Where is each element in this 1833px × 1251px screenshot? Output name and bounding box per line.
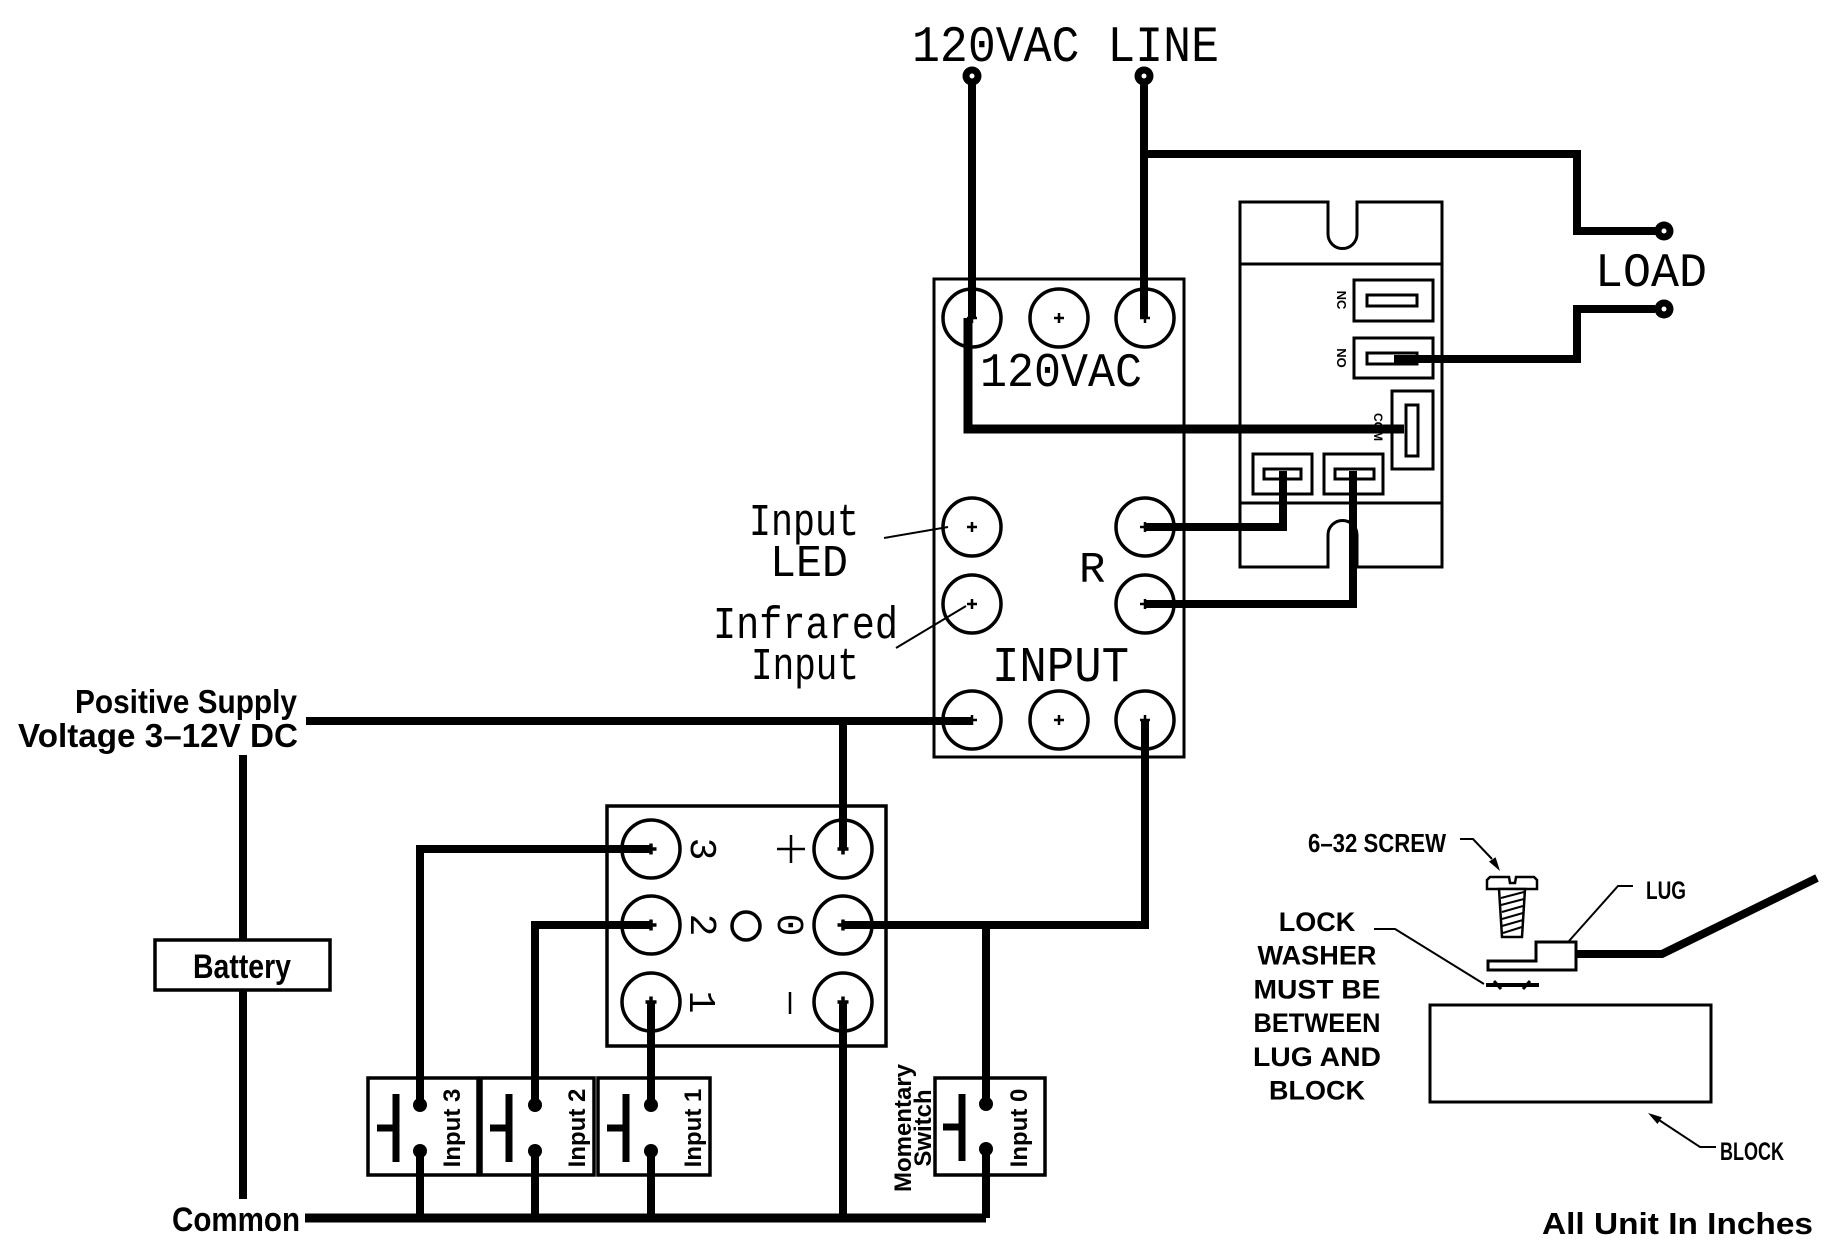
U1 terminal R1 <box>1116 498 1174 556</box>
switch SW3 box <box>368 1078 478 1175</box>
leader BLOCK <box>1648 1113 1716 1147</box>
leader lock washer <box>1374 929 1484 984</box>
svg-text:Common: Common <box>172 1201 300 1239</box>
leader 6-32 screw <box>1460 839 1500 871</box>
U1 terminal AC2 <box>1030 289 1088 347</box>
switch SW2 symbol <box>490 1094 509 1162</box>
TB1 center hole <box>732 912 760 940</box>
label LOCK WASHER MUST BE BETWEEN LUG AND BLOCK <box>1253 907 1381 1106</box>
U1 terminal IN3 <box>1116 691 1174 749</box>
svg-text:NC: NC <box>1334 291 1349 310</box>
LOAD terminal top <box>1655 222 1674 241</box>
screw shaft with threads <box>1499 889 1525 937</box>
U1 terminal cross marks <box>967 313 1150 725</box>
wire SW0 to common <box>982 1149 990 1218</box>
switch SW0 symbol <box>943 1094 962 1161</box>
wire TB1-2 to switch Input2 <box>535 925 651 1105</box>
svg-text:LUG AND: LUG AND <box>1253 1042 1381 1072</box>
TB1 terminal cross marks <box>646 844 849 1008</box>
wire positive supply <box>306 717 972 725</box>
TB1 terminal 3 <box>622 820 680 878</box>
svg-text:LOCK: LOCK <box>1279 907 1356 937</box>
LOAD terminal bottom <box>1655 300 1674 319</box>
svg-text:6–32 SCREW: 6–32 SCREW <box>1308 828 1446 858</box>
battery BT1 box <box>155 940 330 990</box>
wire NO to LOAD bottom <box>1394 309 1655 359</box>
U1 terminal IR <box>943 575 1001 633</box>
relay terminal COM slot <box>1392 391 1433 469</box>
label Input LED <box>749 498 859 590</box>
svg-text:Input 3: Input 3 <box>439 1089 466 1168</box>
svg-text:LOAD: LOAD <box>1595 247 1707 301</box>
block <box>1430 1005 1711 1102</box>
svg-text:120VAC: 120VAC <box>980 347 1142 401</box>
U1 terminal IN2 <box>1030 691 1088 749</box>
wire U1 R1 to relay coil A <box>1145 471 1283 527</box>
U1 terminal AC1 <box>943 289 1001 347</box>
svg-text:R: R <box>1079 546 1105 596</box>
svg-text:BETWEEN: BETWEEN <box>1254 1008 1381 1038</box>
lock washer <box>1486 981 1539 989</box>
wire SW1 to common <box>647 1151 655 1218</box>
wire 120VAC line left drop <box>968 84 976 318</box>
svg-text:All Unit In Inches: All Unit In Inches <box>1542 1206 1813 1241</box>
wire supply to plus terminal <box>839 721 847 849</box>
svg-text:NO: NO <box>1334 348 1349 368</box>
wire common bus <box>305 1214 986 1223</box>
terminal line-right <box>1135 67 1154 86</box>
wire U1 R2 to relay coil B <box>1145 471 1353 604</box>
switch SW1 box <box>598 1078 710 1175</box>
TB1 terminal 0 <box>814 896 872 954</box>
switch SW2 box <box>481 1078 594 1175</box>
leader Infrared Input <box>896 606 966 648</box>
TB1 pin label plus <box>777 835 805 863</box>
wire TB1-1 to switch Input1 <box>647 1002 655 1105</box>
relay K1 outline <box>1240 202 1442 567</box>
U1 terminal LED <box>943 498 1001 556</box>
svg-text:BLOCK: BLOCK <box>1720 1138 1784 1166</box>
svg-text:3: 3 <box>679 838 722 861</box>
lug <box>1488 942 1576 970</box>
screw head <box>1487 877 1537 889</box>
svg-text:Input 2: Input 2 <box>564 1089 591 1168</box>
wire U1 AC1 to relay COM <box>968 318 1404 429</box>
main module U1 box <box>934 279 1184 757</box>
relay terminal NO slot <box>1354 338 1433 378</box>
TB1 terminal minus <box>814 973 872 1031</box>
svg-text:2: 2 <box>679 914 722 937</box>
svg-text:INPUT: INPUT <box>992 640 1129 697</box>
leader Input LED <box>884 527 948 538</box>
switch SW0 contacts <box>979 1097 993 1156</box>
wire TB1-3 to switch Input3 <box>420 849 651 1105</box>
switch SW3 symbol <box>377 1094 396 1162</box>
U1 terminal R2 <box>1116 575 1174 633</box>
svg-text:MUST BE: MUST BE <box>1254 974 1381 1004</box>
switch SW3 contacts <box>413 1098 427 1158</box>
label Infrared Input <box>713 601 898 693</box>
switch SW0 label Momentary Switch <box>890 1063 937 1192</box>
leader LUG <box>1569 886 1633 941</box>
wire momentary switch drop <box>982 925 990 1104</box>
relay terminal NC slot <box>1354 280 1433 321</box>
terminal block TB1 box <box>607 806 886 1046</box>
relay coil terminal A slot <box>1253 454 1312 494</box>
svg-text:Input 0: Input 0 <box>1006 1089 1033 1168</box>
svg-text:LED: LED <box>770 539 848 590</box>
svg-text:Input 1: Input 1 <box>680 1089 707 1168</box>
TB1 terminal 2 <box>622 896 680 954</box>
U1 terminal AC3 <box>1116 289 1174 347</box>
switch SW2 contacts <box>528 1098 542 1158</box>
svg-text:Positive Supply: Positive Supply <box>75 683 298 720</box>
switch SW1 contacts <box>644 1098 658 1158</box>
svg-text:1: 1 <box>678 991 721 1014</box>
wire TB1-0 to U1-IN3 <box>843 720 1145 925</box>
wire battery positive drop <box>239 755 247 1199</box>
svg-text:Switch: Switch <box>910 1089 937 1166</box>
svg-text:Battery: Battery <box>193 948 291 986</box>
svg-text:Input: Input <box>751 642 859 693</box>
wire lug lead <box>1576 878 1817 954</box>
TB1 terminal 1 <box>622 973 680 1031</box>
relay coil terminal B slot <box>1324 454 1383 494</box>
TB1 pin label minus <box>789 992 792 1014</box>
svg-text:0: 0 <box>766 914 809 937</box>
svg-text:120VAC LINE: 120VAC LINE <box>912 20 1219 77</box>
wire line to LOAD top <box>1144 154 1656 231</box>
label Positive Supply Voltage 3-12V DC <box>18 683 298 754</box>
svg-text:Voltage 3–12V DC: Voltage 3–12V DC <box>18 717 298 754</box>
switch SW1 symbol <box>607 1094 626 1162</box>
svg-text:WASHER: WASHER <box>1258 941 1377 971</box>
U1 terminal IN1 <box>943 691 1001 749</box>
wire SW3 to common <box>416 1151 424 1218</box>
svg-text:BLOCK: BLOCK <box>1269 1076 1365 1106</box>
svg-text:LUG: LUG <box>1646 877 1686 905</box>
relay K1 bottom divider <box>1240 502 1442 505</box>
relay K1 top divider <box>1240 263 1442 266</box>
switch SW0 box <box>935 1078 1045 1175</box>
TB1 terminal plus <box>814 820 872 878</box>
terminal line-left <box>963 67 982 86</box>
wire SW2 to common <box>531 1151 539 1218</box>
wire TB1-minus to common <box>839 1002 847 1218</box>
wire 120VAC line right drop <box>1140 84 1148 318</box>
